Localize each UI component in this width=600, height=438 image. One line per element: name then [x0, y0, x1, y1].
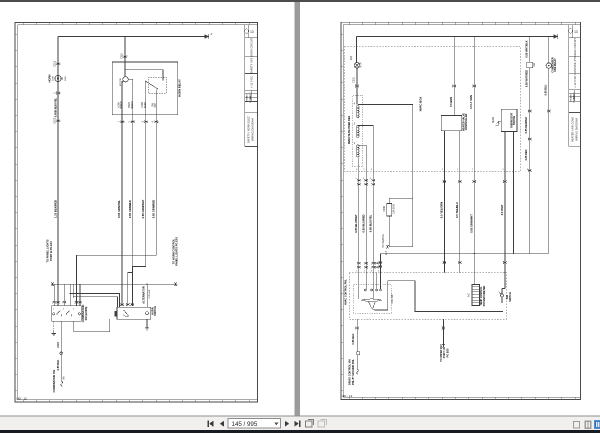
connectors entering horn switch	[121, 303, 124, 306]
thermostat sensor symbol	[496, 121, 502, 125]
svg-text:A: A	[211, 32, 213, 36]
air switch	[501, 294, 504, 297]
svg-text:0.5 WHT: 0.5 WHT	[500, 204, 504, 215]
in-line fuse F2	[387, 204, 392, 217]
svg-text:OUT: OUT	[155, 102, 157, 107]
svg-text:WIRING DIAGRAM: WIRING DIAGRAM	[575, 118, 579, 140]
svg-text:0.85 BLU/WHT: 0.85 BLU/WHT	[354, 214, 358, 233]
svg-text:DWG: DWG	[571, 96, 573, 102]
two page layout icon	[585, 421, 591, 428]
wire: panel ground lead	[356, 319, 358, 352]
off-page arrow A	[205, 34, 209, 39]
drawing frame outer border	[15, 23, 258, 403]
svg-text:C115: C115	[57, 341, 60, 347]
wire: temp control feed	[473, 37, 475, 285]
wire: thermostat out 1	[504, 132, 506, 273]
svg-text:0.85 BLU/YEL: 0.85 BLU/YEL	[369, 214, 373, 232]
status bar bottom	[0, 430, 600, 433]
svg-text:3: 3	[502, 169, 503, 171]
svg-text:FAN SW: FAN SW	[391, 294, 394, 304]
svg-text:0.85B BLK/YEL: 0.85B BLK/YEL	[53, 97, 57, 117]
svg-text:1.25 BLK/RED: 1.25 BLK/RED	[53, 200, 57, 218]
svg-text:0.85 GRN/BLK: 0.85 GRN/BLK	[128, 200, 132, 218]
wire: lamp to resistor pack	[356, 68, 358, 104]
ground below horn switch	[146, 319, 148, 324]
svg-text:TO HEATER: TO HEATER	[382, 234, 385, 248]
blower fuse lamp	[354, 63, 360, 69]
svg-text:145 / 995: 145 / 995	[232, 421, 258, 428]
svg-text:FAN RELAY: FAN RELAY	[554, 58, 557, 72]
svg-text:13: 13	[574, 30, 578, 34]
wire: controller out 2	[459, 131, 461, 273]
svg-text:1: 1	[356, 271, 357, 273]
svg-text:HD - 13: HD - 13	[342, 394, 353, 398]
wire: bus drop c	[63, 284, 65, 306]
svg-text:10A: 10A	[350, 55, 353, 60]
svg-text:BLK: BLK	[65, 76, 67, 81]
ground below combination switch	[53, 321, 55, 330]
wire: bus drop d	[69, 284, 71, 306]
svg-text:PORT B PG E04: PORT B PG E04	[49, 241, 53, 261]
title block logo	[244, 29, 248, 33]
relay pin wires inside box	[121, 81, 123, 115]
thermo relay motor	[546, 63, 551, 68]
heater valve controller U2 box	[441, 115, 461, 130]
svg-text:10A BLW: 10A BLW	[393, 203, 396, 214]
wire: bus drop a	[53, 284, 55, 306]
wire: relay pin 1 drop	[121, 115, 123, 306]
wire: lower link bus	[381, 253, 549, 255]
svg-text:13: 13	[250, 30, 254, 34]
horn switch contact ring	[146, 312, 149, 315]
resistor coil 1	[357, 106, 360, 118]
wire: ac fuse feed	[529, 37, 531, 254]
svg-text:SPEED: SPEED	[121, 101, 123, 109]
single page layout icon	[574, 421, 580, 428]
fan switch wafer	[361, 299, 382, 302]
svg-text:SENS: SENS	[493, 116, 495, 123]
svg-text:HORN: HORN	[47, 75, 51, 83]
wire: lower distribution bus	[51, 283, 177, 285]
wire: coil to switch link	[126, 70, 164, 80]
hvac control panel dashed box	[349, 273, 507, 320]
rotate view icon	[306, 420, 314, 428]
combination switch contacts	[53, 313, 55, 315]
svg-text:PG E05: PG E05	[446, 348, 449, 357]
svg-text:A/C: A/C	[467, 293, 470, 297]
wire: thermostat out 2	[513, 132, 515, 254]
wire: relay pin 4 jog	[76, 115, 156, 285]
svg-text:C101: C101	[54, 60, 57, 67]
svg-text:DWG: DWG	[247, 96, 249, 102]
svg-text:LOW: LOW	[118, 102, 120, 108]
viewer top edge	[0, 0, 600, 2]
svg-text:C906: C906	[383, 205, 386, 211]
hvac unit dashed box	[345, 46, 520, 172]
fan switch wiper	[369, 302, 372, 309]
harness hook end right page	[357, 369, 359, 374]
wire: resistor common	[358, 158, 360, 273]
title block strip	[245, 25, 258, 147]
svg-text:5: 5	[364, 169, 365, 171]
wire: relay feed drop	[124, 37, 126, 63]
svg-text:0.85 BLU: 0.85 BLU	[544, 84, 547, 95]
connector above relay	[124, 55, 127, 58]
svg-text:4: 4	[378, 271, 379, 273]
connector C101	[57, 62, 60, 65]
svg-text:0.85 WHT/BLK: 0.85 WHT/BLK	[525, 40, 528, 57]
wire: link bus drop	[380, 254, 382, 289]
svg-text:0.85 GRN/YEL: 0.85 GRN/YEL	[117, 200, 121, 218]
fan switch contacts	[364, 289, 366, 291]
connectors on ac feed	[528, 110, 531, 113]
svg-text:FEED: FEED	[145, 102, 147, 108]
wire: blower feed drop	[356, 37, 358, 63]
wire: comb switch output	[60, 321, 62, 381]
connector C103	[57, 119, 60, 122]
relay contact dashed box	[148, 78, 167, 94]
svg-text:15A: 15A	[533, 62, 536, 67]
wire: controller out 1	[444, 131, 446, 273]
svg-text:POTENTIOMETER: POTENTIOMETER	[483, 285, 486, 306]
svg-text:HIGH: HIGH	[129, 102, 131, 108]
wire: bus drop f	[79, 284, 81, 306]
svg-text:4: 4	[371, 169, 372, 171]
wire: bus drop b	[57, 284, 59, 306]
wire: blower switch lead	[443, 319, 445, 346]
svg-text:HTR: HTR	[360, 62, 363, 67]
svg-text:REMOTE BLOWER RES: REMOTE BLOWER RES	[348, 116, 351, 145]
svg-text:SPEED: SPEED	[132, 101, 134, 109]
wire: resistor hi tap to controller drop	[358, 104, 413, 198]
fan switch dashed box	[354, 285, 392, 314]
book layout icon selected	[594, 420, 600, 429]
svg-text:COMBINATION SW.: COMBINATION SW.	[53, 369, 56, 392]
wire: controller supply	[453, 37, 455, 116]
svg-text:3: 3	[73, 309, 74, 311]
horn H1	[55, 75, 61, 81]
svg-text:0.85 GRN/WHT: 0.85 GRN/WHT	[141, 199, 145, 218]
drawing frame inner border	[343, 25, 580, 398]
svg-text:SWITCH: SWITCH	[154, 306, 157, 316]
svg-text:CONTROLLER: CONTROLLER	[465, 113, 468, 130]
svg-text:0.85 RED: 0.85 RED	[525, 149, 528, 160]
svg-text:+ 12 V DC: + 12 V DC	[573, 76, 577, 88]
relay switch contact	[145, 81, 146, 82]
gap between the two pages	[294, 2, 300, 415]
svg-text:2: 2	[442, 169, 443, 171]
svg-text:HEATER / AIR COND: HEATER / AIR COND	[570, 117, 574, 142]
connector C102	[57, 92, 60, 95]
svg-text:0.85 BLK: 0.85 BLK	[149, 289, 151, 299]
svg-text:ALTERNATOR: ALTERNATOR	[141, 286, 145, 304]
svg-text:C110: C110	[121, 52, 124, 58]
svg-text:1: 1	[457, 169, 458, 171]
connectors at hvac box outputs	[357, 179, 360, 182]
combination switch S1 box	[52, 306, 81, 321]
page number field	[228, 418, 281, 428]
svg-text:MOTOR: MOTOR	[120, 78, 122, 87]
svg-text:HD - 12: HD - 12	[17, 396, 28, 400]
resistor coil 2	[357, 125, 360, 137]
svg-text:PNL B* GROUND PNL: PNL B* GROUND PNL	[352, 359, 355, 385]
svg-text:HVAC BOX: HVAC BOX	[419, 97, 423, 112]
horn relay K1 box	[112, 62, 177, 115]
wire: relay pin 3 jog	[132, 115, 145, 306]
svg-text:0.5 BRN: 0.5 BRN	[449, 97, 453, 107]
harness hook end	[61, 381, 63, 386]
svg-text:0.85 WHT/RED: 0.85 WHT/RED	[525, 70, 528, 87]
svg-text:0.85 BLU/RED: 0.85 BLU/RED	[361, 214, 365, 232]
wire: thermo relay drop	[548, 68, 550, 253]
horn switch lever	[124, 310, 125, 311]
connector to heater relay	[386, 245, 389, 248]
drawing frame inner border	[17, 25, 257, 400]
svg-text:SAFETY SYS: SAFETY SYS	[249, 57, 253, 73]
wire: comb switch lower link	[74, 319, 110, 332]
svg-text:SCALE: SCALE	[573, 95, 576, 103]
svg-text:3: 3	[371, 271, 372, 273]
fuse bypass loop	[389, 198, 412, 203]
title block logo	[568, 29, 572, 33]
next page button	[285, 421, 289, 427]
horn switch terminal block	[115, 311, 117, 316]
wire: resistor low tap	[358, 145, 366, 272]
toolbar background	[0, 416, 600, 431]
connector square lower	[357, 352, 360, 355]
svg-text:7: 7	[472, 169, 473, 171]
svg-text:1: 1	[53, 309, 54, 311]
svg-text:HORN RELAY: HORN RELAY	[178, 79, 182, 97]
svg-text:SWITCH: SWITCH	[509, 292, 512, 302]
svg-text:C301: C301	[353, 76, 356, 82]
svg-text:0.85 GRN/RED: 0.85 GRN/RED	[151, 200, 155, 218]
svg-text:HVAC CONTROL PNL: HVAC CONTROL PNL	[345, 279, 348, 305]
connector ring on output	[60, 352, 63, 355]
wire: alternator tap	[146, 284, 148, 307]
svg-text:HORN CIRCUIT: HORN CIRCUIT	[249, 38, 253, 57]
relay coil	[123, 77, 128, 82]
svg-text:0.85 BLK: 0.85 BLK	[351, 333, 355, 344]
svg-text:RLY: RLY	[385, 250, 388, 255]
wire: top supply bus	[357, 36, 555, 38]
svg-text:C103: C103	[54, 117, 57, 124]
svg-text:0.5 LT GRN: 0.5 LT GRN	[469, 95, 473, 109]
frame border zone ticks	[15, 23, 249, 403]
connector on pin4	[155, 120, 158, 123]
wire: thermo relay feed	[548, 37, 550, 63]
off-page arrow B	[554, 34, 558, 39]
resistor coil 3	[357, 145, 360, 157]
bus left end connector	[51, 283, 54, 286]
wire: comb switch link to horn switch upper	[70, 293, 119, 307]
wire: relay pin 2 drop	[128, 115, 133, 306]
svg-text:+ 12 V DC: + 12 V DC	[249, 76, 253, 88]
svg-text:0.85 RED/BLK: 0.85 RED/BLK	[525, 116, 528, 133]
svg-text:WIRING DIAGRAM: WIRING DIAGRAM	[251, 118, 255, 140]
thermostat switch box	[501, 109, 517, 131]
connector on pin3	[144, 120, 147, 123]
wire thermostat to air switch	[504, 273, 506, 289]
wires into fan switch	[358, 273, 360, 299]
svg-text:0.5 YEL/BLU: 0.5 YEL/BLU	[455, 202, 459, 218]
rotate view icon disabled	[318, 420, 326, 428]
svg-text:HVAC CIRCUIT: HVAC CIRCUIT	[573, 38, 577, 57]
wire: bus drop e	[75, 255, 77, 306]
title block strip	[569, 25, 581, 147]
svg-text:2: 2	[364, 271, 365, 273]
connectors entering control panel	[357, 262, 360, 265]
svg-text:0.85 GRN/WHT: 0.85 GRN/WHT	[470, 214, 474, 233]
svg-text:0.85 BLK: 0.85 BLK	[57, 359, 60, 370]
temp control potentiometer	[472, 285, 480, 306]
wire: comb switch link to horn switch lower	[74, 297, 118, 307]
blower resistor dashed box	[353, 95, 363, 167]
frame border zone ticks	[341, 22, 575, 399]
bus right end connector	[174, 283, 177, 286]
svg-text:COM: COM	[142, 102, 144, 107]
svg-text:6: 6	[356, 169, 357, 171]
svg-text:1B: 1B	[62, 77, 64, 80]
svg-text:SWITCH: SWITCH	[514, 116, 516, 125]
previous page button	[220, 421, 224, 427]
wire: left feed vertical	[57, 37, 59, 285]
svg-text:2: 2	[63, 309, 64, 311]
first page button	[207, 421, 213, 427]
connector on pin1	[121, 120, 124, 123]
horn switch S2 box	[117, 307, 151, 319]
wire: resistor med tap	[358, 126, 374, 273]
wire: fan switch step link	[375, 281, 504, 312]
drawing frame outer border	[341, 22, 581, 399]
connector on pin2	[131, 120, 134, 123]
svg-text:SCALE: SCALE	[249, 95, 252, 103]
svg-text:CONTROL SYS: CONTROL SYS	[573, 56, 577, 75]
svg-text:8: 8	[527, 169, 528, 171]
svg-text:PANEL LIGHTS PG E03: PANEL LIGHTS PG E03	[175, 237, 179, 266]
last page button	[294, 421, 300, 427]
fuse F3	[527, 62, 533, 68]
svg-text:SAFETY / HORN ELEC: SAFETY / HORN ELEC	[246, 116, 250, 143]
wire into potentiometer	[473, 284, 475, 286]
svg-text:SW (HORN): SW (HORN)	[85, 306, 88, 320]
svg-text:0.5 YEL/GRN: 0.5 YEL/GRN	[440, 202, 444, 218]
wire: main supply bus top	[58, 36, 205, 38]
